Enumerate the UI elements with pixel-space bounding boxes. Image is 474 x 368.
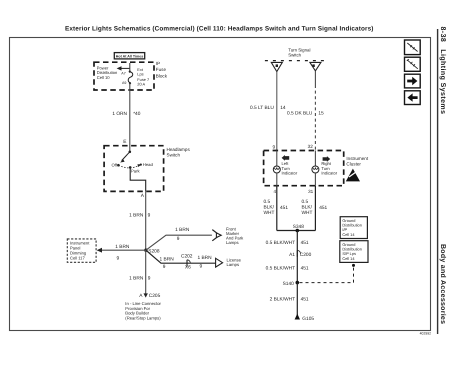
svg-text:Indicator: Indicator xyxy=(282,171,298,176)
svg-text:Park: Park xyxy=(131,168,141,173)
svg-text:G105: G105 xyxy=(302,316,314,322)
sidebar rule xyxy=(437,29,439,334)
headlamps switch (dashed box) xyxy=(104,146,190,192)
svg-text:9: 9 xyxy=(177,236,180,242)
instrument panel dimming box xyxy=(67,239,96,262)
svg-text:Headlamps: Headlamps xyxy=(167,147,191,152)
svg-text:Hot At All Times: Hot At All Times xyxy=(116,55,143,59)
svg-text:451: 451 xyxy=(301,296,309,302)
svg-text:Lps: Lps xyxy=(137,72,143,77)
svg-text:Cell 14: Cell 14 xyxy=(342,232,355,237)
svg-text:451: 451 xyxy=(280,205,288,211)
svg-text:Block: Block xyxy=(156,74,168,79)
sidebar icon button 4 (previous arrow) xyxy=(405,91,421,105)
svg-text:9: 9 xyxy=(117,256,120,262)
svg-text:4: 4 xyxy=(273,189,276,194)
svg-text:Body and Accessories: Body and Accessories xyxy=(439,244,447,324)
wire left 0.5 BLK/WHT 451 xyxy=(264,186,289,231)
svg-text:14: 14 xyxy=(280,105,286,111)
svg-text:451: 451 xyxy=(301,266,309,272)
headlamp switch contacts and lever xyxy=(111,151,153,192)
svg-text:E: E xyxy=(123,139,126,145)
instrument cluster (dashed box) xyxy=(264,151,369,186)
svg-text:S348: S348 xyxy=(293,224,305,230)
svg-text:C200: C200 xyxy=(300,252,312,258)
connector triangle left (from turn signal switch) xyxy=(271,62,282,71)
svg-text:A1: A1 xyxy=(289,252,295,258)
svg-text:15: 15 xyxy=(318,111,324,117)
off-page arrow license lamps xyxy=(216,258,242,268)
svg-text:Head: Head xyxy=(143,162,154,167)
connector A1 C200 xyxy=(289,250,311,258)
wire 0.5 DK BLU 15 (dashed) xyxy=(287,71,324,151)
svg-text:451: 451 xyxy=(319,205,327,211)
svg-text:BLK/: BLK/ xyxy=(264,204,275,210)
svg-text:9: 9 xyxy=(163,264,166,270)
svg-text:0.5 LT BLU: 0.5 LT BLU xyxy=(250,105,274,111)
svg-text:0.5 BLK/WHT: 0.5 BLK/WHT xyxy=(266,266,295,272)
svg-text:Off: Off xyxy=(111,163,117,168)
connector triangle right xyxy=(310,62,321,71)
svg-text:20 A: 20 A xyxy=(137,82,145,87)
left turn indicator lamp xyxy=(273,151,298,186)
svg-text:(Rear/Stop Lamps): (Rear/Stop Lamps) xyxy=(125,315,161,320)
svg-text:Cell 14: Cell 14 xyxy=(342,256,355,261)
svg-text:Switch: Switch xyxy=(167,153,181,158)
branch S208 to license lamps xyxy=(146,250,216,270)
svg-text:1 BRN: 1 BRN xyxy=(129,276,144,282)
fuse block feed arrow xyxy=(117,66,130,70)
svg-text:IP: IP xyxy=(156,61,160,66)
svg-text:9: 9 xyxy=(272,144,275,149)
wire S208 to C205, 1 BRN 9 xyxy=(129,250,151,296)
svg-text:9: 9 xyxy=(148,276,151,282)
svg-text:BLK/: BLK/ xyxy=(302,204,313,210)
sidebar icon button 1 (schematic thumbnail) xyxy=(405,40,421,55)
svg-text:C202: C202 xyxy=(181,254,193,260)
right turn indicator lamp xyxy=(312,151,338,186)
sidebar icon button 3 (next arrow) xyxy=(405,74,421,88)
svg-text:Cell 117: Cell 117 xyxy=(70,255,85,260)
turn signal switch label xyxy=(265,48,325,61)
wire S348 to C200, 0.5 BLK/WHT 451 xyxy=(266,231,309,283)
svg-text:1 BRN: 1 BRN xyxy=(197,255,212,261)
svg-text:Instrument: Instrument xyxy=(346,156,368,161)
svg-text:X6: X6 xyxy=(185,264,191,270)
ground distribution box 2 xyxy=(340,241,368,263)
svg-text:1 BRN: 1 BRN xyxy=(175,227,190,233)
svg-text:Switch: Switch xyxy=(288,53,301,58)
svg-text:1 BRN: 1 BRN xyxy=(115,244,130,250)
fuse block IP (dashed box) xyxy=(94,61,168,90)
svg-text:Lamps: Lamps xyxy=(227,262,240,267)
main frame border xyxy=(10,38,431,331)
wire fuse block to headlamps switch, 1 ORN 40 xyxy=(112,83,140,151)
svg-text:Indicator: Indicator xyxy=(321,171,337,176)
svg-text:A7: A7 xyxy=(121,71,125,75)
svg-text:0.5 DK BLU: 0.5 DK BLU xyxy=(287,111,313,117)
svg-text:9: 9 xyxy=(200,264,203,270)
ground G105 xyxy=(295,314,315,322)
svg-text:Cluster: Cluster xyxy=(346,162,361,167)
hot at all times box xyxy=(114,53,144,59)
svg-text:WHT: WHT xyxy=(302,210,313,216)
node S140 with dashed tie to ground distribution xyxy=(283,264,355,287)
svg-text:S140: S140 xyxy=(283,281,295,287)
svg-text:31: 31 xyxy=(308,189,314,194)
wire right 0.5 BLK/WHT 451 xyxy=(302,186,328,231)
svg-text:A9: A9 xyxy=(122,81,126,85)
svg-text:1 ORN: 1 ORN xyxy=(112,111,127,117)
wire S208 to instrument panel dimming, 1 BRN 9 xyxy=(97,244,146,262)
branch S208 to front marker lamps xyxy=(146,227,212,250)
svg-text:0.5: 0.5 xyxy=(264,199,271,205)
svg-text:0.5: 0.5 xyxy=(302,199,309,205)
note: in-line connector provision xyxy=(125,301,161,320)
svg-text:1 BRN: 1 BRN xyxy=(160,256,175,262)
label 0.5 BLK/WHT 451 below C200 xyxy=(266,266,309,272)
ground distribution box 1 xyxy=(340,217,367,239)
svg-text:Fuse: Fuse xyxy=(156,67,167,72)
node S348 xyxy=(277,224,316,232)
wire A to S208, 1 BRN 9 xyxy=(129,191,150,250)
off-page arrow front marker xyxy=(212,227,244,245)
svg-text:9: 9 xyxy=(148,212,151,218)
svg-text:1 BRN: 1 BRN xyxy=(129,212,144,218)
svg-text:Exterior Lights Schematics (Co: Exterior Lights Schematics (Commercial) … xyxy=(65,26,374,33)
svg-text:WHT: WHT xyxy=(264,210,275,216)
connector C202 X6 xyxy=(181,254,212,271)
svg-text:402992: 402992 xyxy=(420,332,431,336)
svg-text:8-38 Lighting Systems: 8-38 Lighting Systems xyxy=(439,27,447,115)
fuse Ext Lps 20A xyxy=(121,63,149,87)
svg-text:2 BLK/WHT: 2 BLK/WHT xyxy=(270,296,295,302)
svg-text:C205: C205 xyxy=(149,293,161,299)
sidebar icon button 2 (schematic thumbnail) xyxy=(405,57,421,71)
ESD warning triangle xyxy=(346,169,360,182)
node S208 xyxy=(144,248,160,254)
svg-text:Cell 10: Cell 10 xyxy=(97,75,110,80)
connector A C205 xyxy=(139,293,160,299)
wire S140 to ground, 2 BLK/WHT 451 xyxy=(270,283,309,316)
svg-text:32: 32 xyxy=(308,144,314,149)
svg-text:0.5 BLK/WHT: 0.5 BLK/WHT xyxy=(266,240,295,246)
svg-text:451: 451 xyxy=(301,240,309,246)
wire 0.5 LT BLU 14 xyxy=(250,72,286,151)
svg-text:Lamps: Lamps xyxy=(226,240,239,245)
svg-text:*40: *40 xyxy=(133,111,141,117)
